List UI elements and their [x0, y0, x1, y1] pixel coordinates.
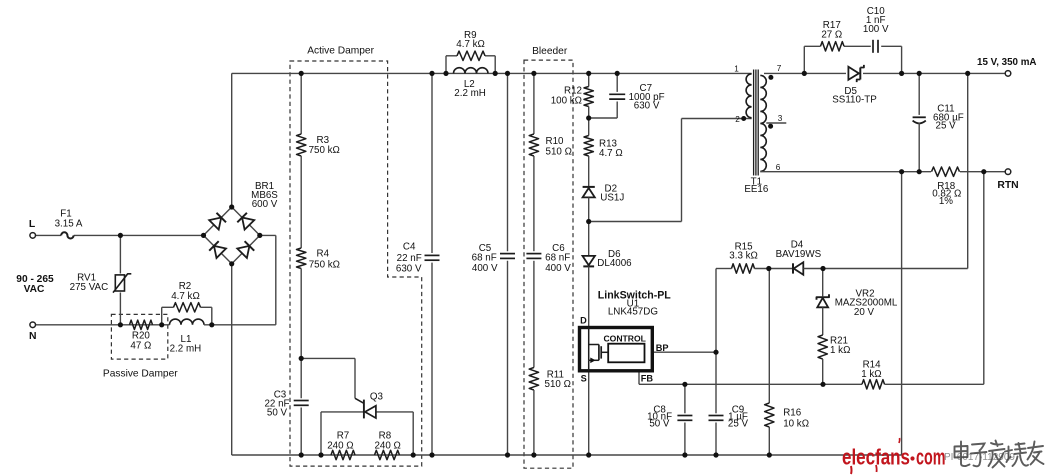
svg-text:S: S: [581, 374, 587, 384]
svg-text:50 V: 50 V: [649, 419, 670, 430]
svg-text:7: 7: [777, 64, 782, 73]
svg-text:1%: 1%: [939, 196, 953, 207]
svg-text:47 Ω: 47 Ω: [130, 341, 151, 352]
svg-text:BP: BP: [656, 343, 669, 353]
svg-text:D: D: [580, 315, 587, 325]
svg-text:R16: R16: [783, 408, 802, 419]
svg-text:1: 1: [734, 65, 739, 74]
svg-text:FB: FB: [641, 374, 654, 384]
svg-text:3: 3: [778, 114, 783, 123]
svg-text:22 nF: 22 nF: [397, 253, 422, 264]
svg-text:com: com: [916, 445, 946, 470]
svg-text:Bleeder: Bleeder: [532, 46, 568, 57]
svg-text:400 V: 400 V: [545, 263, 571, 274]
svg-text:25 V: 25 V: [728, 419, 749, 430]
svg-text:4.7 kΩ: 4.7 kΩ: [171, 291, 200, 302]
svg-text:4.7 Ω: 4.7 Ω: [599, 148, 623, 159]
svg-text:10 kΩ: 10 kΩ: [783, 419, 809, 430]
svg-text:25 V: 25 V: [936, 121, 957, 132]
svg-text:Active Damper: Active Damper: [307, 46, 374, 57]
svg-text:EE16: EE16: [744, 184, 769, 195]
svg-text:R4: R4: [317, 249, 330, 260]
svg-text:400 V: 400 V: [472, 263, 498, 274]
svg-text:SS110-TP: SS110-TP: [832, 95, 877, 106]
svg-text:CONTROL: CONTROL: [603, 333, 646, 343]
svg-text:3.15 A: 3.15 A: [55, 219, 83, 230]
svg-text:BAV19WS: BAV19WS: [776, 249, 822, 260]
svg-text:100 V: 100 V: [863, 24, 889, 35]
svg-text:275 VAC: 275 VAC: [70, 282, 108, 293]
svg-text:4.7 kΩ: 4.7 kΩ: [456, 39, 485, 50]
svg-text:C4: C4: [403, 242, 416, 253]
svg-text:3.3 kΩ: 3.3 kΩ: [729, 251, 758, 262]
svg-text:1 kΩ: 1 kΩ: [861, 369, 881, 380]
svg-text:100 kΩ: 100 kΩ: [551, 96, 582, 107]
svg-text:15 V, 350 mA: 15 V, 350 mA: [977, 57, 1037, 68]
svg-text:R10: R10: [546, 136, 565, 147]
svg-text:750 kΩ: 750 kΩ: [309, 259, 340, 270]
svg-text:Q3: Q3: [370, 392, 384, 403]
svg-text:Passive Damper: Passive Damper: [103, 369, 178, 380]
svg-text:510 Ω: 510 Ω: [545, 379, 571, 390]
svg-text:2.2 mH: 2.2 mH: [454, 88, 486, 99]
svg-text:LNK457DG: LNK457DG: [608, 307, 658, 318]
svg-text:N: N: [29, 331, 37, 342]
svg-text:L: L: [29, 219, 36, 230]
svg-text:240 Ω: 240 Ω: [374, 441, 400, 452]
svg-text:68 nF: 68 nF: [545, 253, 570, 264]
svg-text:DL4006: DL4006: [597, 258, 632, 269]
svg-text:6: 6: [776, 163, 781, 172]
svg-text:1 kΩ: 1 kΩ: [830, 345, 850, 356]
svg-text:600 V: 600 V: [252, 199, 278, 210]
svg-text:510 Ω: 510 Ω: [546, 147, 572, 158]
svg-text:20 V: 20 V: [854, 307, 875, 318]
svg-text:240 Ω: 240 Ω: [327, 441, 353, 452]
svg-text:630 V: 630 V: [634, 101, 660, 112]
svg-text:US1J: US1J: [600, 192, 624, 203]
svg-text:RTN: RTN: [997, 180, 1018, 191]
svg-text:2: 2: [735, 115, 740, 124]
svg-text:750 kΩ: 750 kΩ: [309, 145, 340, 156]
svg-text:2.2 mH: 2.2 mH: [170, 343, 202, 354]
svg-text:VAC: VAC: [24, 284, 45, 295]
svg-text:50 V: 50 V: [267, 408, 288, 419]
svg-text:27 Ω: 27 Ω: [821, 29, 842, 40]
svg-text:68 nF: 68 nF: [472, 253, 497, 264]
svg-text:630 V: 630 V: [396, 264, 422, 275]
